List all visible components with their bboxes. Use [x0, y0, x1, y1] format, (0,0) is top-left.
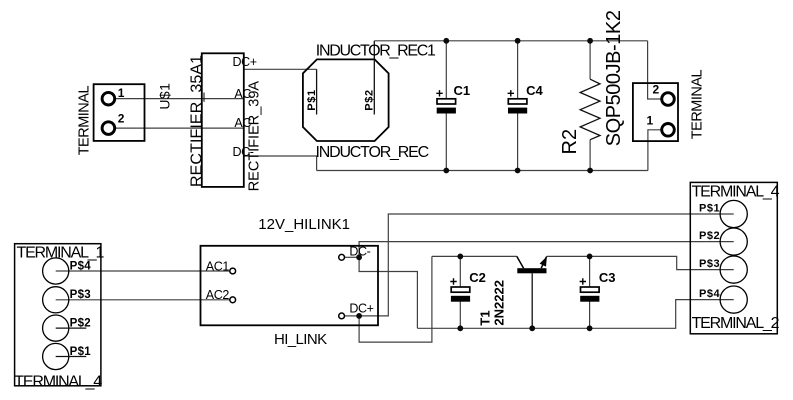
svg-text:12V_HILINK1: 12V_HILINK1	[258, 216, 350, 233]
svg-text:2N2222: 2N2222	[491, 280, 506, 326]
svg-text:2: 2	[653, 83, 660, 97]
svg-text:RECTIFIER_39A: RECTIFIER_39A	[246, 81, 262, 192]
svg-text:P$4: P$4	[699, 288, 720, 300]
svg-text:AC2: AC2	[206, 288, 230, 302]
svg-text:2: 2	[118, 112, 125, 126]
svg-text:TERMINAL_4: TERMINAL_4	[692, 184, 780, 201]
svg-text:C1: C1	[454, 83, 471, 98]
svg-text:P$2: P$2	[70, 318, 91, 330]
svg-text:TERMINAL: TERMINAL	[690, 69, 706, 139]
svg-text:INDUCTOR_REC: INDUCTOR_REC	[316, 144, 429, 161]
svg-text:P$3: P$3	[699, 258, 720, 270]
svg-text:HI_LINK: HI_LINK	[274, 331, 327, 348]
svg-text:R2: R2	[559, 129, 581, 155]
svg-text:TERMINAL_4: TERMINAL_4	[14, 374, 102, 391]
svg-text:DC+: DC+	[349, 302, 373, 316]
svg-text:INDUCTOR_REC1: INDUCTOR_REC1	[316, 42, 436, 59]
svg-text:C2: C2	[469, 270, 486, 285]
svg-text:TERMINAL_2: TERMINAL_2	[692, 315, 780, 332]
svg-text:TERMINAL: TERMINAL	[77, 86, 93, 156]
svg-text:TERMINAL_1: TERMINAL_1	[17, 245, 105, 262]
svg-text:C3: C3	[599, 270, 616, 285]
svg-text:P$1: P$1	[699, 202, 720, 214]
svg-text:P$3: P$3	[70, 289, 91, 301]
svg-text:DC+: DC+	[233, 55, 257, 69]
svg-text:P$1: P$1	[70, 346, 92, 358]
svg-text:C4: C4	[526, 83, 543, 98]
svg-text:1: 1	[118, 86, 125, 100]
svg-text:P$2: P$2	[699, 230, 720, 242]
svg-text:1: 1	[647, 114, 654, 128]
svg-text:P$4: P$4	[70, 260, 92, 272]
svg-text:SQP500JB-1K2: SQP500JB-1K2	[603, 10, 625, 146]
svg-text:AC1: AC1	[206, 259, 230, 273]
svg-text:RECTIFIER_35A1: RECTIFIER_35A1	[188, 55, 205, 187]
svg-text:P$2: P$2	[364, 89, 376, 110]
svg-text:U$1: U$1	[156, 83, 172, 110]
svg-text:P$1: P$1	[306, 89, 318, 110]
svg-text:T1: T1	[478, 310, 493, 325]
